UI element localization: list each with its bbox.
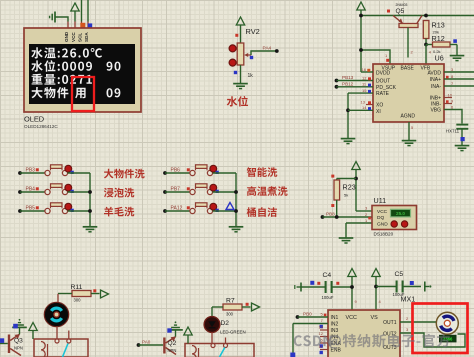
pin state square R12 [453, 39, 457, 43]
resistor R11 [58, 291, 100, 303]
transistor Q3 NPN [0, 334, 21, 355]
pin IN3 stub [319, 325, 329, 330]
svg-text:INA+: INA+ [430, 77, 441, 83]
svg-text:VBG: VBG [430, 108, 441, 114]
ground - AGND [402, 141, 417, 146]
svg-text:C5: C5 [395, 271, 404, 278]
svg-text:3: 3 [451, 67, 454, 72]
power +V arrow to OLED VCC pin [71, 3, 79, 28]
svg-text:1k: 1k [248, 73, 254, 79]
terminal arrow - R7 output [252, 303, 260, 311]
wire - OUT1 pin2 to motor [400, 316, 437, 322]
red annotation rectangle around 用 [72, 77, 94, 111]
transistor Q2 NPN [163, 337, 176, 355]
svg-text:IN2: IN2 [331, 322, 339, 328]
L298 pin names left [331, 315, 342, 354]
motor - drain pump motor [44, 302, 68, 326]
svg-text:7: 7 [451, 81, 454, 86]
ground - U11 [339, 238, 354, 243]
pin XO 13 stub [361, 99, 374, 104]
power +V arrow above left relay [29, 323, 37, 340]
svg-text:AGND: AGND [401, 114, 416, 120]
ground - VBG cap [455, 146, 470, 151]
power +V arrow VCC L298 [348, 269, 358, 311]
label 0.2k [433, 49, 441, 54]
svg-text:C4: C4 [323, 272, 332, 279]
ground - left button group [83, 227, 98, 232]
label 300 R7 [226, 312, 234, 317]
label 浸泡洗 [104, 188, 135, 198]
label 高温煮洗 [247, 186, 288, 196]
svg-text:300: 300 [74, 298, 82, 303]
pin state square VBG cap [461, 137, 465, 141]
svg-text:5: 5 [411, 125, 414, 130]
power +V arrow above RV2 [236, 17, 244, 43]
ground - Q2 emitter (flipped) [168, 321, 183, 336]
wire - OUT2 pin3 to motor [400, 327, 465, 347]
label 100uF C4 [322, 295, 334, 300]
svg-text:R11: R11 [71, 284, 83, 291]
label PA4 [263, 46, 272, 52]
svg-text:1: 1 [365, 218, 368, 223]
pin number 4 [429, 50, 432, 55]
HX711 pin name texts [376, 65, 441, 119]
svg-text:LED-GREEN: LED-GREEN [220, 330, 246, 335]
svg-text:14: 14 [362, 105, 367, 110]
svg-text:11: 11 [362, 82, 367, 87]
svg-text:10: 10 [448, 92, 453, 97]
wire - VBG pin6 to capacitor [444, 104, 462, 123]
svg-text:XO: XO [376, 103, 383, 109]
label LED-GREEN [220, 330, 246, 335]
svg-text:PD_SCK: PD_SCK [376, 85, 397, 91]
wire - RV2 bottom to ground [240, 65, 242, 83]
label 2N6403 [396, 3, 408, 7]
pin number 2 U11 [365, 212, 371, 220]
svg-text:GND: GND [377, 221, 388, 227]
svg-text:PA0: PA0 [142, 340, 151, 345]
svg-text:AVDD: AVDD [427, 70, 441, 76]
pin state squares Q3 [0, 324, 18, 343]
terminal - C4 left ground rail [295, 283, 301, 292]
pin state square Q5 [387, 10, 390, 13]
node PB0 to IN1 [296, 311, 328, 319]
OLED screen text line1 水温:26.0℃ [31, 47, 102, 58]
svg-text:12: 12 [362, 75, 367, 80]
svg-text:PB6: PB6 [171, 168, 181, 174]
power +V arrow for DS18B20 rail [352, 162, 360, 212]
svg-text:10: 10 [319, 325, 324, 330]
OLED screen text line4 大物件 用 09 [31, 87, 120, 98]
label Q3 [14, 338, 23, 345]
svg-text:R13: R13 [432, 21, 445, 30]
label 300 R11 [74, 298, 82, 303]
pin state square R11 [93, 289, 96, 292]
label D2 [221, 320, 230, 327]
label OLED [24, 115, 44, 124]
label U11 [374, 196, 387, 205]
svg-text:DQ: DQ [377, 215, 384, 221]
svg-text:VCC: VCC [377, 209, 388, 215]
pin number 2 [411, 50, 414, 55]
wire - VCC pin3 U11 [356, 206, 372, 212]
label R12 [432, 34, 445, 43]
svg-text:R12: R12 [432, 34, 445, 43]
svg-text:R7: R7 [226, 298, 235, 305]
potentiometer RV2 [229, 43, 251, 66]
push button PB5 羊毛洗 [18, 203, 90, 214]
resistor R12 [426, 42, 457, 55]
OLED screen text line3 重量:0271 [32, 74, 92, 85]
L298 pin names top [346, 315, 379, 321]
label Q2 [168, 340, 177, 347]
pin ENA stub [320, 338, 329, 348]
wire - VSUP pin1 to rail [359, 48, 390, 64]
wire - DVDD pin16 [361, 67, 373, 72]
label NPN Q3 [14, 346, 23, 351]
OLED pin labels GND VCC SCL SDA [64, 31, 89, 42]
svg-text:BASE: BASE [401, 65, 415, 71]
svg-text:4: 4 [379, 299, 382, 304]
svg-text:NPN: NPN [14, 346, 23, 351]
transistor Q5 2N6403 [393, 16, 422, 58]
U11 up/down buttons [391, 221, 408, 227]
op-amp U6 HX711 IC body [373, 64, 444, 122]
wire - OLED SDA to top edge [87, 0, 89, 28]
svg-text:VCC: VCC [71, 32, 76, 42]
relay switch arm (cyan) [63, 344, 69, 357]
svg-text:PB12: PB12 [342, 81, 354, 86]
wire - IN2 down to bottom edge [293, 318, 328, 353]
svg-text:2N6403: 2N6403 [396, 3, 408, 7]
svg-text:13: 13 [361, 99, 366, 104]
red annotation box around motor MX1 [413, 304, 468, 354]
capacitor - VBG bypass [456, 125, 468, 145]
power +V arrow for HX711 rail [357, 2, 365, 72]
svg-text:2: 2 [411, 50, 414, 55]
svg-text:XI: XI [376, 109, 381, 115]
svg-text:3: 3 [365, 206, 368, 211]
ground - RATE/XI [341, 139, 356, 144]
blue probe arrow on PA12 row [226, 203, 234, 210]
ground - RV2 [233, 84, 248, 89]
svg-text:DOUT: DOUT [376, 79, 390, 85]
label MX1 [401, 295, 416, 304]
OLED display module body [24, 28, 141, 112]
pin state square R7 [246, 303, 249, 306]
motor driver U? L298 body [328, 310, 400, 357]
pin state square - IN2 wire end [290, 353, 295, 357]
svg-text:300: 300 [226, 312, 234, 317]
svg-text:8: 8 [451, 74, 454, 79]
push button PB4 浸泡洗 [18, 184, 90, 195]
ground - R12 [450, 56, 465, 61]
terminal arrow - R11 output [101, 290, 109, 298]
resistor R23 [334, 179, 356, 218]
label 水位 [227, 96, 248, 107]
pin state squares RV2 [234, 34, 253, 74]
label U6 [435, 54, 444, 63]
pin INB- 9 stub [444, 98, 454, 103]
svg-text:SCL: SCL [78, 33, 83, 42]
svg-text:D2: D2 [221, 320, 230, 327]
label 20k [433, 30, 439, 35]
label C5 [395, 271, 404, 278]
svg-text:Q2: Q2 [168, 340, 177, 347]
label C4 [323, 272, 332, 279]
svg-text:SDA: SDA [84, 32, 89, 42]
label R13 [432, 21, 445, 30]
label DS18B20 [374, 231, 394, 236]
wire - RATE pin15 to ground net [346, 88, 373, 138]
svg-text:100uF: 100uF [322, 295, 334, 300]
push button PA12 桶自洁 [163, 203, 236, 214]
wire - OLED SCL to top edge [81, 0, 83, 28]
resistor R13 [423, 21, 429, 47]
wire - INA- pin7 [444, 81, 474, 86]
pin state square C5 [410, 281, 414, 285]
label 智能洗 [247, 167, 277, 177]
OLED screen text line2 水位:0009 90 [31, 60, 120, 71]
temperature sensor U11 DS18B20 body [372, 206, 417, 230]
svg-text:4: 4 [429, 50, 432, 55]
svg-text:RATE: RATE [376, 91, 390, 97]
relay RL? coil and contacts (left) [34, 331, 88, 357]
node PB13 to DOUT pin12 [335, 75, 373, 82]
svg-text:PA12: PA12 [171, 206, 183, 212]
capacitor C4 [301, 281, 352, 293]
push button PB7 高温煮洗 [163, 184, 236, 195]
label 5k [344, 193, 348, 198]
wire - OLED GND ground lead [50, 12, 68, 29]
svg-text:16: 16 [362, 67, 367, 72]
svg-text:GND: GND [64, 31, 69, 42]
label 桶自洁 [247, 207, 277, 217]
svg-text:OLED: OLED [24, 115, 44, 124]
label R7 [226, 298, 235, 305]
pin state square Q2 [167, 328, 171, 332]
power +V arrow VS L298 [372, 269, 382, 311]
svg-text:RV2: RV2 [246, 27, 260, 36]
svg-text:VCC: VCC [346, 315, 357, 321]
label R23 [343, 183, 356, 192]
svg-text:25.0: 25.0 [396, 211, 405, 216]
motor MX1 rpm display [440, 335, 457, 342]
svg-text:INA-: INA- [431, 84, 441, 90]
wire - AVDD pin3 [444, 67, 474, 72]
wire - GND pin1 U11 to ground [346, 218, 372, 238]
svg-text:9: 9 [451, 98, 454, 103]
svg-text:MX1: MX1 [401, 295, 416, 304]
watermark CSDN @特纳斯电子-官方 [294, 334, 450, 349]
svg-text:5k: 5k [344, 193, 348, 198]
label 羊毛洗 [104, 207, 134, 217]
svg-text:PB8: PB8 [326, 212, 335, 217]
svg-text:HX711: HX711 [446, 128, 460, 133]
wire - top rail to Q5 and off right edge [359, 14, 474, 18]
power +V arrow above middle relay [184, 327, 192, 344]
L298 pin names right [383, 320, 397, 351]
svg-text:12: 12 [319, 331, 324, 336]
node PB12 to PD_SCK pin11 [335, 81, 373, 88]
svg-text:Q5: Q5 [396, 8, 405, 15]
wire - motor to relay contact [56, 326, 58, 339]
svg-text:DVDD: DVDD [376, 70, 391, 76]
wire - AGND pin5 to ground [409, 122, 414, 140]
node PB8 to DQ [321, 212, 372, 219]
wire - VFB pin4 to R13/R12 junction [425, 45, 427, 65]
svg-text:5: 5 [321, 312, 324, 317]
label 大物件洗 [104, 169, 145, 179]
svg-text:IN3: IN3 [331, 328, 339, 334]
push button PB3 大物件洗 [18, 165, 90, 176]
svg-text:PA4: PA4 [263, 46, 272, 52]
svg-text:15: 15 [362, 88, 367, 93]
ground - Q3 emitter (flipped) [12, 319, 27, 334]
svg-text:1: 1 [385, 53, 388, 58]
label 100uF C5 [393, 292, 405, 297]
capacitor C5 [376, 281, 421, 293]
pin XI 14 [362, 105, 371, 110]
label OLED1286412C [24, 124, 58, 129]
pin state indicator squares above OLED [80, 23, 92, 28]
U11 pin names [377, 209, 388, 228]
svg-text:R23: R23 [343, 183, 356, 192]
label Q5 [396, 8, 405, 15]
U11 temperature display [391, 209, 411, 217]
wire - right button bus [234, 173, 238, 226]
relay switch arm middle (cyan) [220, 348, 225, 357]
relay RL? coil and contacts (middle) [185, 338, 254, 357]
svg-text:IN1: IN1 [331, 315, 339, 321]
svg-text:PB3: PB3 [26, 168, 36, 174]
svg-text:7: 7 [321, 318, 324, 323]
svg-text:9: 9 [355, 299, 358, 304]
svg-text:PB5: PB5 [26, 206, 36, 212]
node PA0 to Q2 base [137, 340, 164, 347]
terminal - C5 right rail [425, 282, 432, 292]
svg-text:2: 2 [406, 316, 409, 321]
ground - right button group [229, 227, 244, 232]
label RV2 [246, 27, 260, 36]
svg-text:3: 3 [406, 327, 409, 332]
pin number 1 [385, 53, 389, 62]
svg-text:VS: VS [371, 315, 379, 321]
svg-text:Q3: Q3 [14, 338, 23, 345]
pin IN4 stub [319, 331, 329, 336]
svg-text:U6: U6 [435, 54, 444, 63]
pin state squares C4 [310, 281, 339, 285]
resistor R7 [212, 304, 251, 317]
svg-text:PB4: PB4 [26, 187, 36, 193]
pin ENB stub [319, 344, 329, 354]
wire - RV2 wiper to PA4 [251, 49, 279, 55]
pin state squares R23 [331, 175, 334, 207]
svg-text:PB7: PB7 [171, 187, 181, 193]
label HX711 [446, 128, 460, 133]
label NPN Q2 [168, 348, 177, 353]
LED D2 LED-GREEN [204, 317, 220, 344]
label R11 [71, 284, 83, 291]
svg-text:PB13: PB13 [342, 75, 354, 80]
svg-text:NPN: NPN [168, 348, 177, 353]
svg-text:DS18B20: DS18B20 [374, 231, 394, 236]
svg-text:6: 6 [451, 104, 454, 109]
svg-text:2: 2 [365, 212, 368, 217]
wire - left button bus [88, 173, 92, 226]
wire - INA+ pin8 [444, 74, 474, 79]
svg-text:OLED1286412C: OLED1286412C [24, 124, 58, 129]
motor MX1 [436, 312, 458, 334]
label 1k [248, 73, 254, 79]
OLED screen [29, 44, 135, 104]
svg-text:U11: U11 [374, 196, 387, 205]
push button PB6 智能洗 [163, 165, 236, 176]
svg-text:PB0: PB0 [303, 311, 312, 316]
pin INB+ 10 stub [444, 92, 453, 97]
svg-text:OUT1: OUT1 [383, 320, 397, 326]
